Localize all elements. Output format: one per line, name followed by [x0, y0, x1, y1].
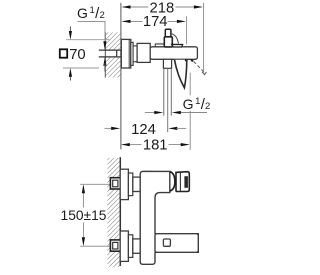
G1/2 outlet left arrow [145, 111, 164, 114]
outlet pipe lines below stub (top view) [163, 68, 165, 115]
collar top (bottom view) [128, 173, 132, 196]
square window on spout [163, 239, 170, 246]
G1/2 down arrow [103, 41, 106, 50]
eccentric union top (bottom view) [110, 178, 120, 189]
handle cap (top view) [165, 29, 171, 37]
union neck (top view) [133, 46, 137, 62]
eccentric union bottom (bottom view) [110, 240, 120, 251]
dim 70 bottom arrow [69, 68, 72, 81]
cartridge dome (bottom view) [170, 172, 175, 191]
dim 218 line [122, 5, 203, 8]
spout outline (bottom view) [155, 234, 198, 253]
union nut top (bottom view) [133, 177, 140, 191]
svg-text:181: 181 [143, 138, 168, 154]
svg-text:124: 124 [131, 122, 156, 138]
pipe end box in wall (top view) [117, 50, 121, 57]
cartridge cap edge (top view) [155, 44, 164, 47]
dim 181 line [121, 143, 190, 146]
wall hatching (bottom view) [107, 158, 120, 267]
dim 70 bottom extension line [63, 67, 99, 69]
escutcheon (top view) [121, 39, 131, 68]
G1/2 leader line [78, 21, 106, 45]
svg-text:150±15: 150±15 [61, 208, 107, 223]
wall back line (top view) [104, 32, 106, 77]
dim 218 right extension line [203, 3, 205, 73]
faucet body (top view) [150, 47, 197, 60]
square symbol for 70 [60, 49, 67, 57]
svg-text:174: 174 [143, 14, 168, 30]
svg-text:70: 70 [69, 47, 85, 63]
phantom lever tip hook [202, 72, 206, 75]
union nut bottom (bottom view) [133, 239, 140, 253]
dim 174 line [122, 20, 186, 23]
dim 181 right extension line [189, 73, 191, 96]
escutcheon bottom (bottom view) [120, 231, 128, 261]
phantom lever dashed line [194, 62, 205, 73]
collar bottom (bottom view) [128, 235, 132, 258]
escutcheon collar (top view) [131, 42, 133, 65]
dim 150 top extension line / pipe stub [80, 183, 110, 185]
phantom raised-lever tick B [191, 59, 194, 62]
faucet body outline (bottom view): body + handle arm + spout [140, 171, 198, 264]
inlet pipe lines (top view) [99, 49, 117, 51]
dim 150 vertical line [82, 184, 85, 246]
escutcheon top (bottom view) [120, 169, 128, 199]
lever bend on body top (top view) [172, 44, 183, 47]
dim 70 top extension line [66, 39, 109, 41]
dim 70 top arrow [69, 27, 72, 40]
spout stub (top view) [163, 59, 171, 68]
outlet centerline extension for dim 124 (top view) [167, 68, 169, 132]
union nut (top view) [137, 43, 150, 62]
G1/2 up arrow [103, 57, 106, 72]
handle base (top view) [164, 37, 172, 47]
lever arc (top view) [171, 34, 178, 44]
dim 174 right extension line [186, 16, 188, 44]
lever blade hanging below body (top view) [175, 60, 187, 88]
lever knob (bottom view) [176, 172, 189, 192]
wall face line (bottom view) [119, 157, 121, 266]
phantom raised-lever tick A [185, 59, 188, 61]
wall face line (top view, also extension line for 124/181) [120, 3, 122, 150]
dim 124 line with outside arrows [105, 127, 187, 130]
G1/2 outlet right arrow with leader [172, 111, 207, 114]
dim 150 bottom extension line / pipe stub [80, 245, 110, 247]
wall hatching (top view) [106, 32, 121, 77]
